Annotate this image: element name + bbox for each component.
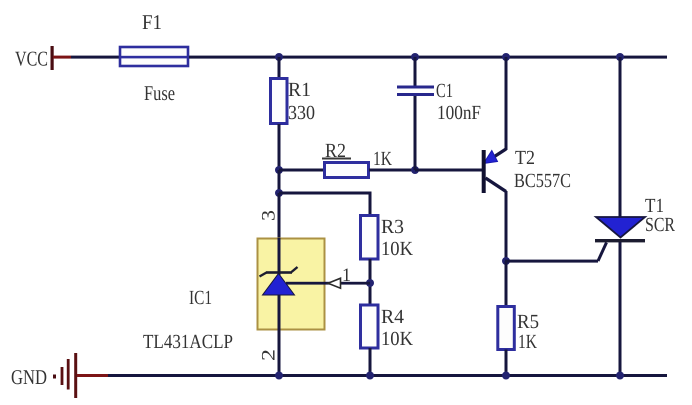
- svg-text:C1: C1: [436, 80, 453, 102]
- svg-text:1: 1: [342, 265, 351, 286]
- transistor T2 emitter arrow: [484, 151, 498, 164]
- junction dot R3 R4 ref: [366, 279, 374, 287]
- svg-text:F1: F1: [142, 10, 162, 34]
- svg-text:10K: 10K: [381, 238, 414, 260]
- wire node to R5: [505, 261, 508, 307]
- label R2 underline: [322, 158, 351, 160]
- wire fuse to node A: [189, 56, 279, 59]
- wire R4 bottom to rail: [369, 348, 372, 377]
- resistor R2: [325, 163, 369, 178]
- GND port dot: [53, 375, 56, 379]
- transistor T2 collector diagonal: [486, 178, 507, 192]
- wire node to R2: [279, 169, 324, 172]
- transistor T2 base bar: [482, 150, 486, 193]
- wire R5 bottom to rail: [505, 350, 508, 378]
- transistor T2 collector wire: [505, 191, 508, 261]
- junction dot left column lower: [275, 189, 283, 197]
- junction dot top rail T2: [502, 53, 510, 61]
- wire VCC to fuse: [71, 56, 120, 59]
- svg-text:R5: R5: [517, 311, 539, 333]
- wire gate horizontal: [505, 260, 598, 263]
- junction dot top rail T1: [616, 53, 624, 61]
- svg-text:TL431ACLP: TL431ACLP: [143, 331, 233, 353]
- wire bottom rail right end: [620, 374, 667, 377]
- svg-text:T2: T2: [515, 147, 535, 169]
- wire through IC1 box: [278, 238, 281, 330]
- junction dot bottom rail T1: [616, 372, 624, 380]
- svg-text:SCR: SCR: [645, 214, 676, 236]
- wire top rail node A to C1: [279, 56, 415, 59]
- wire IC1 box to rail: [278, 330, 281, 377]
- junction dot left column upper: [275, 166, 283, 174]
- svg-text:2: 2: [259, 349, 280, 361]
- wire GND red segment: [77, 374, 108, 377]
- svg-text:R3: R3: [381, 216, 404, 238]
- svg-text:1K: 1K: [518, 331, 537, 353]
- IC1 ref pin wire: [286, 282, 370, 285]
- wire R1 bottom to node: [278, 124, 281, 170]
- fuse F1: [120, 47, 188, 66]
- wire SCR cathode to rail: [619, 242, 622, 377]
- wire bend down to R3 top: [369, 192, 372, 216]
- wire R3 bottom to node: [369, 259, 372, 305]
- junction dot bottom rail R4: [366, 372, 374, 380]
- svg-text:R1: R1: [288, 79, 311, 101]
- wire VCC red segment: [53, 56, 71, 59]
- wire rail to SCR anode: [619, 57, 622, 217]
- svg-text:100nF: 100nF: [437, 102, 481, 124]
- SCR T1 triangle: [596, 217, 645, 238]
- wire R2 to C1 node: [369, 169, 415, 172]
- junction dot bottom rail R5: [502, 372, 510, 380]
- wire rail to C1 top plate: [414, 57, 417, 86]
- junction dot collector gate R5: [502, 257, 510, 265]
- ground bar medium: [67, 359, 70, 390]
- svg-text:R4: R4: [381, 306, 404, 328]
- wire C1 bottom plate to node: [414, 96, 417, 170]
- wire bottom rail mid3: [506, 374, 620, 377]
- wire top rail right end: [620, 56, 667, 59]
- ground bar tall: [74, 353, 77, 398]
- wire left column to IC1 box: [278, 193, 281, 238]
- junction dot top rail R1: [275, 53, 283, 61]
- TL431 triangle IC1: [263, 274, 295, 296]
- IC1 box: [258, 239, 325, 330]
- wire bottom rail mid1: [279, 374, 370, 377]
- wire bottom rail left: [108, 374, 279, 377]
- wire left column between nodes: [278, 170, 281, 193]
- wire gate diagonal: [598, 243, 607, 262]
- transistor T2 emitter wire: [505, 57, 508, 150]
- SCR T1 cathode bar: [595, 239, 645, 242]
- wire top rail C1 to T2 emitter: [415, 56, 507, 59]
- svg-text:GND: GND: [11, 365, 47, 389]
- svg-text:IC1: IC1: [189, 287, 212, 309]
- svg-text:3: 3: [259, 210, 280, 221]
- IC1 ref pin open arrow: [328, 278, 341, 288]
- ground bar short: [61, 367, 64, 385]
- wire node to T2 base: [415, 169, 482, 172]
- transistor T2 emitter diagonal: [486, 149, 506, 162]
- junction dot top rail C1: [411, 53, 419, 61]
- resistor R4: [361, 305, 379, 348]
- svg-text:1K: 1K: [373, 148, 392, 170]
- wire rail to R1 top: [278, 57, 281, 78]
- wire bottom rail mid2: [370, 374, 507, 377]
- svg-text:VCC: VCC: [15, 47, 48, 71]
- junction dot bottom rail IC1: [275, 372, 283, 380]
- svg-text:330: 330: [288, 102, 315, 124]
- wire nets y193 horizontal to R3: [279, 192, 370, 195]
- capacitor C1: [397, 86, 434, 97]
- resistor R1: [271, 79, 288, 124]
- junction dot R2 C1 base: [411, 166, 419, 174]
- VCC port bar: [51, 46, 54, 70]
- svg-text:10K: 10K: [381, 328, 414, 350]
- svg-text:Fuse: Fuse: [144, 81, 175, 105]
- TL431 cathode bar: [260, 267, 298, 277]
- resistor R3: [361, 216, 379, 260]
- svg-text:BC557C: BC557C: [514, 170, 571, 192]
- wire top rail T2 to T1: [507, 56, 620, 59]
- resistor R5: [498, 307, 515, 350]
